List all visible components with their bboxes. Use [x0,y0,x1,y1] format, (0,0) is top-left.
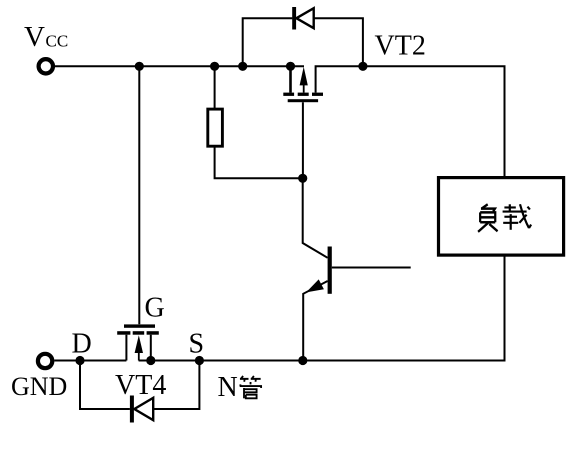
wire: top diode left leg [243,18,293,66]
VT2 drain terminal (left) [289,66,292,92]
resistor R1 [208,109,223,146]
diode VD1 (top, cathode left) [296,8,313,28]
VT4 channel bar middle [133,331,145,335]
terminal VCC [39,59,53,73]
wire: VT2 source to right corner down to load [316,66,505,177]
VT2 channel bar left [283,93,294,96]
wire: VCC rail top [55,65,304,67]
wire: resistor bottom to gate node [215,146,303,178]
wire: bottom diode left leg [80,361,130,410]
label 管 (drawn glyph) [240,376,261,398]
op-amp n/a : P-channel MOSFET VT2 [283,66,323,102]
svg-text:VT4: VT4 [115,370,166,401]
svg-text:N: N [218,372,238,403]
wire: load bottom to bottom rail [139,255,505,360]
label 载 (drawn glyph) [503,204,531,230]
VT4 channel bar left [117,331,130,335]
transistor Q1 (NPN) [303,178,411,360]
svg-text:CC: CC [46,32,69,51]
Q1 base lead [332,267,411,269]
wire: VT2 gate lead [302,102,304,178]
VT2 channel bar right [312,93,323,96]
node: VCC/diode-left junction [238,62,247,71]
svg-text:GND: GND [11,372,67,401]
node: VT2-source/diode-right junction [358,62,367,71]
svg-text:D: D [72,329,92,360]
svg-text:VT2: VT2 [375,31,426,62]
VT4 channel bar right [147,331,159,335]
VT2 channel bar middle [298,93,309,96]
wire: VCC rail down to VT4 gate [138,66,140,324]
Q1 base bar [328,247,332,294]
VT4 gate plate [124,324,155,327]
wire: resistor top branch [214,66,216,109]
svg-text:V: V [24,21,45,53]
svg-text:S: S [189,329,205,360]
node: VCC/gate-feed junction [135,62,144,71]
load box 负载 [439,178,564,256]
svg-text:G: G [145,293,165,324]
VT2 body arrow (points up, P-channel) [303,85,305,93]
node: emitter/bottom-rail junction [298,356,307,365]
node: GND/diode-left junction [75,356,84,365]
label 负 (drawn glyph) [478,204,498,232]
wire: top diode right leg [314,18,363,66]
transistor VT4 (N-channel MOSFET) [117,324,159,360]
node: source-rail/diode-right junction [195,356,204,365]
wire: bottom diode right leg [134,361,199,410]
Q1 collector lead [303,178,328,257]
terminal GND [38,354,52,368]
VT4 source terminal [150,335,152,361]
node: VCC/VT2-drain junction [286,62,295,71]
VT2 gate plate [288,99,318,102]
VT4 drain terminal [125,335,127,361]
diode VD2 (bottom, body diode of VT4, cathode left) [134,398,153,420]
Q1 emitter lead with arrow [303,281,327,361]
VT4 body arrow (points up into channel, N-channel) [135,335,143,353]
wire: GND to VT4 drain [54,360,126,362]
node: VCC/resistor junction [210,62,219,71]
node: gate/resistor/collector junction [298,174,307,183]
node: VT4-source junction [146,356,155,365]
